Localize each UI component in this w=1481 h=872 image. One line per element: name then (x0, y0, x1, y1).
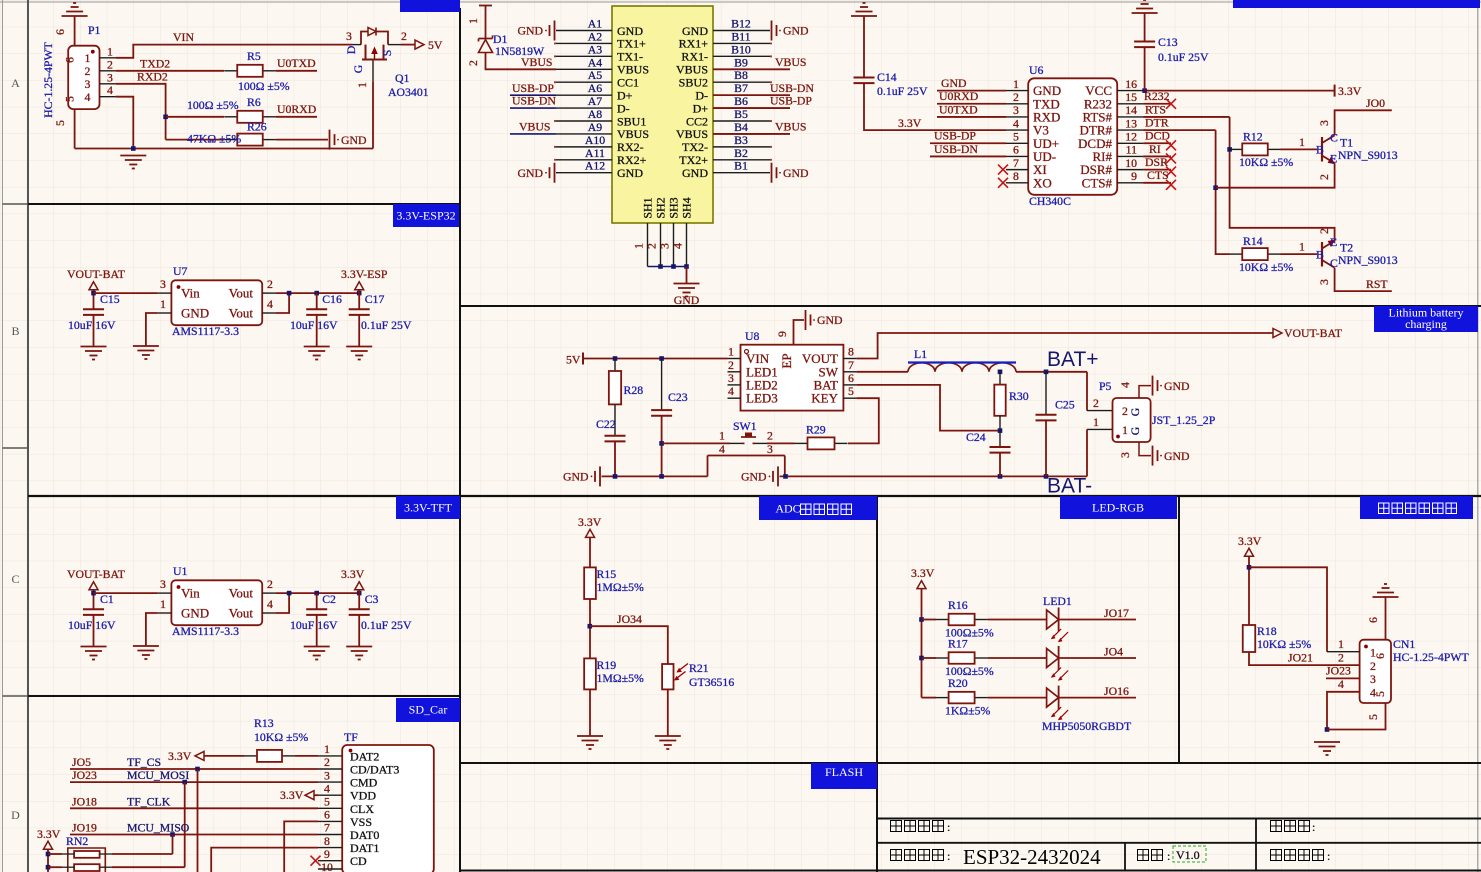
svg-text:JO0: JO0 (1366, 96, 1385, 110)
svg-text:1: 1 (85, 51, 91, 65)
svg-text:A8: A8 (588, 107, 603, 121)
svg-text:10KΩ ±5%: 10KΩ ±5% (1239, 155, 1293, 169)
svg-text:2: 2 (728, 358, 734, 372)
svg-text:1MΩ±5%: 1MΩ±5% (597, 671, 645, 685)
svg-text:XO: XO (1033, 175, 1052, 190)
svg-text:100Ω ±5%: 100Ω ±5% (187, 98, 239, 112)
svg-text:2: 2 (324, 755, 330, 769)
svg-text:7: 7 (324, 821, 330, 835)
svg-text:R21: R21 (689, 661, 709, 675)
svg-text:EP: EP (779, 353, 794, 368)
svg-text:C22: C22 (596, 417, 616, 431)
svg-text:0.1uF 25V: 0.1uF 25V (1158, 50, 1209, 64)
svg-text:1: 1 (1013, 77, 1019, 91)
svg-text:6: 6 (1366, 617, 1380, 623)
svg-text:JO4: JO4 (1104, 645, 1123, 659)
svg-text:6: 6 (848, 371, 854, 385)
svg-text:0.1uF 25V: 0.1uF 25V (361, 318, 412, 332)
svg-text:3: 3 (160, 277, 166, 291)
svg-text:3.3V-ESP32: 3.3V-ESP32 (396, 209, 455, 223)
svg-text:V1.0: V1.0 (1176, 848, 1200, 862)
svg-text:GND: GND (682, 166, 708, 180)
svg-text:USB-DN: USB-DN (770, 81, 814, 95)
svg-text:8: 8 (324, 834, 330, 848)
svg-text:R13: R13 (254, 716, 274, 730)
svg-text:CTS: CTS (1147, 168, 1169, 182)
svg-text:SW1: SW1 (733, 419, 757, 433)
svg-text:B: B (11, 324, 19, 338)
svg-text:VSS: VSS (350, 815, 372, 829)
svg-text:G: G (351, 64, 365, 73)
svg-text:3: 3 (1317, 279, 1331, 285)
svg-text:R12: R12 (1243, 130, 1263, 144)
svg-text:1N5819W: 1N5819W (495, 44, 545, 58)
svg-text:47KΩ ±5%: 47KΩ ±5% (187, 132, 241, 146)
svg-text:RX1-: RX1- (681, 50, 708, 64)
svg-text:B3: B3 (734, 133, 748, 147)
svg-text:SBU2: SBU2 (679, 76, 708, 90)
svg-text:GND: GND (341, 133, 367, 147)
svg-text:B11: B11 (731, 29, 750, 43)
svg-text:TX1-: TX1- (617, 50, 643, 64)
svg-text:RXD2: RXD2 (137, 70, 168, 84)
svg-text:16: 16 (1125, 77, 1137, 91)
svg-text:0.1uF 25V: 0.1uF 25V (361, 618, 412, 632)
svg-text:RN2: RN2 (66, 834, 88, 848)
svg-text:3.3V: 3.3V (898, 116, 922, 130)
svg-text:5V: 5V (566, 353, 581, 367)
svg-text:GND: GND (941, 76, 967, 90)
svg-text:L1: L1 (914, 347, 927, 361)
svg-text:2: 2 (645, 243, 659, 249)
svg-text:GND: GND (517, 24, 543, 38)
svg-text:3.3V: 3.3V (1238, 534, 1262, 548)
svg-text:GND: GND (563, 470, 589, 484)
svg-text:3: 3 (1013, 103, 1019, 117)
svg-text:U0TXD: U0TXD (277, 56, 316, 70)
svg-text:LED-RGB: LED-RGB (1092, 501, 1144, 515)
svg-text:R29: R29 (806, 423, 826, 437)
svg-text:4: 4 (1013, 116, 1019, 130)
svg-text:1: 1 (632, 243, 646, 249)
svg-text:1: 1 (1299, 240, 1305, 254)
svg-text:1: 1 (324, 742, 330, 756)
svg-text:1: 1 (1093, 415, 1099, 429)
svg-text:ESP32-2432024: ESP32-2432024 (963, 845, 1101, 869)
svg-text:2: 2 (1338, 651, 1344, 665)
svg-text:3: 3 (728, 371, 734, 385)
svg-text:VBUS: VBUS (775, 55, 806, 69)
svg-text:15: 15 (1125, 90, 1137, 104)
svg-text::: : (1167, 849, 1170, 863)
svg-text:Vout: Vout (229, 605, 254, 620)
svg-text:1: 1 (1338, 637, 1344, 651)
svg-text:100Ω ±5%: 100Ω ±5% (238, 79, 290, 93)
svg-text:SD_Car: SD_Car (409, 703, 448, 717)
svg-text:14: 14 (1125, 103, 1137, 117)
svg-text:6: 6 (63, 57, 77, 63)
svg-text:DAT0: DAT0 (350, 828, 379, 842)
svg-text:5V: 5V (428, 38, 443, 52)
svg-text:HC-1.25-4PWT: HC-1.25-4PWT (41, 41, 55, 117)
svg-text:3: 3 (85, 77, 91, 91)
svg-text:GND: GND (1164, 449, 1190, 463)
svg-text:6: 6 (53, 29, 67, 35)
svg-text:5: 5 (324, 795, 330, 809)
svg-text:TX1+: TX1+ (617, 37, 646, 51)
svg-text:P5: P5 (1099, 379, 1112, 393)
svg-text:1KΩ±5%: 1KΩ±5% (945, 704, 991, 718)
svg-text:D+: D+ (693, 101, 709, 115)
svg-text:VBUS: VBUS (676, 127, 708, 141)
svg-text:E: E (1330, 152, 1337, 166)
svg-text:2: 2 (107, 57, 113, 71)
svg-text:U6: U6 (1029, 63, 1044, 77)
svg-text:3.3V: 3.3V (37, 827, 61, 841)
svg-text:GND: GND (1164, 379, 1190, 393)
svg-text:U0RXD: U0RXD (939, 89, 979, 103)
svg-text:GND: GND (817, 313, 843, 327)
svg-text:CH340C: CH340C (1029, 194, 1071, 208)
svg-text:Vout: Vout (229, 305, 254, 320)
svg-text:C23: C23 (668, 390, 688, 404)
svg-text:10KΩ ±5%: 10KΩ ±5% (254, 730, 308, 744)
svg-text:3: 3 (324, 768, 330, 782)
svg-text:9: 9 (775, 331, 789, 337)
svg-text:2: 2 (1093, 396, 1099, 410)
svg-text:3: 3 (107, 70, 113, 84)
svg-text:VOUT-BAT: VOUT-BAT (1284, 326, 1343, 340)
svg-text:LED3: LED3 (746, 391, 778, 406)
svg-text:S: S (380, 50, 394, 57)
svg-text:R14: R14 (1243, 234, 1263, 248)
svg-text:DAT1: DAT1 (350, 841, 379, 855)
svg-text:7: 7 (1013, 156, 1019, 170)
svg-text:USB-DP: USB-DP (512, 81, 554, 95)
svg-text:13: 13 (1125, 116, 1137, 130)
svg-text:U8: U8 (745, 329, 760, 343)
svg-text:4: 4 (728, 384, 734, 398)
svg-text:3: 3 (767, 442, 773, 456)
svg-text:U0TXD: U0TXD (939, 102, 978, 116)
svg-text:P1: P1 (88, 23, 101, 37)
svg-text:B5: B5 (734, 107, 748, 121)
svg-text:JO21: JO21 (1288, 651, 1313, 665)
svg-text:VBUS: VBUS (676, 63, 708, 77)
svg-text:DSR: DSR (1145, 155, 1168, 169)
svg-text:A10: A10 (585, 133, 605, 147)
svg-text:B2: B2 (734, 146, 748, 160)
svg-text:B1: B1 (734, 159, 748, 173)
svg-text:2: 2 (267, 277, 273, 291)
svg-text:JO16: JO16 (1104, 684, 1129, 698)
svg-text:GND: GND (674, 293, 700, 307)
svg-text:Vout: Vout (229, 286, 254, 301)
svg-text:3.3V-TFT: 3.3V-TFT (404, 501, 453, 515)
svg-text:1: 1 (160, 597, 166, 611)
svg-text:AMS1117-3.3: AMS1117-3.3 (172, 324, 239, 338)
svg-text:4: 4 (719, 442, 725, 456)
svg-text:1: 1 (107, 44, 113, 58)
svg-text:LED1: LED1 (1043, 594, 1072, 608)
svg-text:C15: C15 (100, 292, 120, 306)
svg-text:B: B (1316, 143, 1324, 157)
svg-text:HC-1.25-4PWT: HC-1.25-4PWT (1393, 650, 1469, 664)
svg-text:R26: R26 (247, 120, 267, 134)
svg-text:2: 2 (267, 577, 273, 591)
svg-text:D-: D- (617, 101, 630, 115)
svg-text:3: 3 (1118, 452, 1132, 458)
svg-text:A2: A2 (588, 29, 603, 43)
svg-text:4: 4 (324, 781, 330, 795)
svg-text:A9: A9 (588, 120, 603, 134)
svg-text:C13: C13 (1158, 35, 1178, 49)
svg-text:C2: C2 (322, 592, 336, 606)
svg-text:charging: charging (1405, 317, 1447, 331)
svg-text:RX2+: RX2+ (617, 153, 647, 167)
svg-text:TF_CLK: TF_CLK (127, 794, 171, 808)
svg-text:VOUT-BAT: VOUT-BAT (67, 567, 126, 581)
svg-text:9: 9 (324, 847, 330, 861)
svg-text:GND: GND (617, 166, 643, 180)
svg-text:RX1+: RX1+ (679, 37, 709, 51)
svg-text:CC2: CC2 (686, 114, 708, 128)
svg-text:10: 10 (1125, 156, 1137, 170)
svg-text:10: 10 (321, 860, 333, 872)
svg-text:MCU_MOSI: MCU_MOSI (127, 768, 189, 782)
svg-text:B4: B4 (734, 120, 748, 134)
svg-text:3: 3 (1370, 672, 1376, 686)
svg-text:GND: GND (617, 24, 643, 38)
svg-text:3.3V: 3.3V (911, 566, 935, 580)
svg-text:Vout: Vout (229, 586, 254, 601)
svg-text:9: 9 (1131, 169, 1137, 183)
svg-text:3: 3 (658, 243, 672, 249)
svg-text:10KΩ ±5%: 10KΩ ±5% (1239, 260, 1293, 274)
svg-text:1: 1 (719, 429, 725, 443)
svg-text:VBUS: VBUS (775, 120, 806, 134)
svg-text:R28: R28 (624, 383, 644, 397)
svg-text:0.1uF 25V: 0.1uF 25V (877, 84, 928, 98)
svg-text:3: 3 (160, 577, 166, 591)
svg-text:AO3401: AO3401 (388, 85, 429, 99)
svg-text:GND: GND (741, 470, 767, 484)
svg-text:1: 1 (728, 345, 734, 359)
svg-text:A7: A7 (588, 94, 603, 108)
svg-text:JO5: JO5 (72, 755, 91, 769)
svg-text:4: 4 (267, 597, 273, 611)
svg-text:C25: C25 (1055, 398, 1075, 412)
svg-text:4: 4 (107, 83, 113, 97)
svg-text:VBUS: VBUS (617, 127, 649, 141)
svg-text:SH4: SH4 (680, 197, 694, 218)
svg-text:C: C (11, 572, 19, 586)
svg-text:1: 1 (160, 297, 166, 311)
svg-text:C1: C1 (100, 592, 114, 606)
svg-text:5: 5 (53, 120, 67, 126)
svg-text:A11: A11 (585, 146, 605, 160)
svg-text:DTR: DTR (1145, 116, 1169, 130)
svg-text:3.3V: 3.3V (280, 788, 304, 802)
svg-text::: : (947, 820, 950, 834)
svg-text:A1: A1 (588, 17, 603, 31)
svg-text:JO17: JO17 (1104, 606, 1129, 620)
svg-text:5: 5 (1366, 714, 1380, 720)
svg-text:KEY: KEY (811, 391, 838, 406)
svg-text:B: B (1316, 248, 1324, 262)
svg-text:U1: U1 (173, 564, 188, 578)
svg-text:1: 1 (466, 18, 480, 24)
svg-text:GT36516: GT36516 (689, 675, 734, 689)
svg-text:R16: R16 (948, 598, 968, 612)
svg-text:GND: GND (783, 166, 809, 180)
svg-text:6: 6 (324, 808, 330, 822)
svg-text:C: C (1330, 256, 1338, 270)
svg-text:CC1: CC1 (617, 76, 639, 90)
svg-text:AMS1117-3.3: AMS1117-3.3 (172, 624, 239, 638)
svg-text:C14: C14 (877, 70, 897, 84)
svg-text:USB-DN: USB-DN (934, 142, 978, 156)
svg-text:VDD: VDD (350, 789, 376, 803)
svg-text:SBU1: SBU1 (617, 114, 646, 128)
svg-text:TX2+: TX2+ (679, 153, 708, 167)
svg-text::: : (947, 849, 950, 863)
svg-text:10KΩ ±5%: 10KΩ ±5% (1257, 637, 1311, 651)
svg-text:2: 2 (85, 64, 91, 78)
svg-text:TF: TF (344, 730, 358, 744)
svg-text:B6: B6 (734, 94, 748, 108)
svg-text:BAT+: BAT+ (1047, 348, 1099, 371)
svg-text:10uF 16V: 10uF 16V (68, 618, 116, 632)
svg-text:R19: R19 (597, 658, 617, 672)
svg-text:RI: RI (1149, 142, 1161, 156)
svg-text:JO23: JO23 (1326, 664, 1351, 678)
svg-text:R30: R30 (1009, 389, 1029, 403)
svg-text:FLASH: FLASH (825, 765, 863, 779)
svg-text:5: 5 (63, 96, 77, 102)
svg-text:3.3V: 3.3V (168, 749, 192, 763)
svg-text:NPN_S9013: NPN_S9013 (1338, 253, 1398, 267)
svg-text:5: 5 (1013, 129, 1019, 143)
svg-text:6: 6 (1373, 653, 1387, 659)
svg-text:VBUS: VBUS (617, 63, 649, 77)
svg-text:A6: A6 (588, 81, 603, 95)
svg-text:4: 4 (85, 90, 91, 104)
svg-text:C: C (1330, 131, 1338, 145)
svg-text:CLX: CLX (350, 802, 374, 816)
svg-text:7: 7 (848, 358, 854, 372)
svg-text:C17: C17 (365, 292, 385, 306)
svg-text:Q1: Q1 (395, 71, 410, 85)
svg-text:TF_CS: TF_CS (127, 755, 161, 769)
svg-text:3: 3 (346, 29, 352, 43)
svg-text:3.3V: 3.3V (578, 515, 602, 529)
svg-text:10uF 16V: 10uF 16V (290, 318, 338, 332)
svg-text:4: 4 (671, 243, 685, 249)
svg-text:G: G (1128, 426, 1142, 435)
svg-text:1: 1 (1299, 135, 1305, 149)
svg-text:USB-DP: USB-DP (770, 94, 812, 108)
svg-text:12: 12 (1125, 129, 1137, 143)
svg-text:10uF 16V: 10uF 16V (290, 618, 338, 632)
svg-text::: : (1312, 820, 1315, 834)
svg-text:R18: R18 (1257, 624, 1277, 638)
svg-text:2: 2 (767, 429, 773, 443)
svg-text:VBUS: VBUS (519, 120, 550, 134)
svg-text:A: A (11, 76, 20, 90)
svg-text:GND: GND (682, 24, 708, 38)
svg-text:3.3V: 3.3V (341, 567, 365, 581)
svg-text:5: 5 (1373, 691, 1387, 697)
svg-text:MCU_MISO: MCU_MISO (127, 821, 190, 835)
svg-text:ADC: ADC (775, 502, 800, 516)
svg-text:B7: B7 (734, 81, 748, 95)
svg-text:D: D (11, 808, 20, 822)
svg-text:JO19: JO19 (72, 821, 97, 835)
svg-text:D: D (344, 45, 358, 54)
svg-text:R20: R20 (948, 676, 968, 690)
svg-text:3.3V-ESP: 3.3V-ESP (341, 267, 388, 281)
svg-text:CMD: CMD (350, 776, 378, 790)
svg-text:JST_1.25_2P: JST_1.25_2P (1152, 413, 1216, 427)
svg-text:10uF 16V: 10uF 16V (68, 318, 116, 332)
svg-text:R6: R6 (247, 95, 261, 109)
svg-text:4: 4 (267, 297, 273, 311)
svg-text:B8: B8 (734, 68, 748, 82)
svg-text:A5: A5 (588, 68, 603, 82)
svg-text:Vin: Vin (181, 586, 200, 601)
svg-text:TXD2: TXD2 (140, 57, 170, 71)
svg-text:RTS: RTS (1145, 102, 1166, 116)
svg-text:Vin: Vin (181, 286, 200, 301)
svg-text:2: 2 (1317, 228, 1331, 234)
svg-text:R232: R232 (1144, 89, 1170, 103)
svg-text:8: 8 (848, 345, 854, 359)
svg-text:3.3V: 3.3V (1338, 84, 1362, 98)
svg-text:VOUT-BAT: VOUT-BAT (67, 267, 126, 281)
svg-text:11: 11 (1126, 143, 1137, 157)
svg-text:TX2-: TX2- (682, 140, 708, 154)
svg-text:MHP5050RGBDT: MHP5050RGBDT (1042, 719, 1132, 733)
svg-text:USB-DN: USB-DN (512, 94, 556, 108)
svg-text:C24: C24 (966, 430, 986, 444)
svg-text:SH1: SH1 (641, 197, 655, 218)
svg-text:SH2: SH2 (654, 197, 668, 218)
svg-text:D-: D- (695, 88, 708, 102)
svg-text:CD: CD (350, 854, 367, 868)
svg-text:CD/DAT3: CD/DAT3 (350, 763, 399, 777)
svg-text:SH3: SH3 (667, 197, 681, 218)
svg-text:E: E (1330, 235, 1337, 249)
svg-text:R17: R17 (948, 637, 968, 651)
svg-text:1MΩ±5%: 1MΩ±5% (597, 580, 645, 594)
svg-text:8: 8 (1013, 169, 1019, 183)
svg-text:C3: C3 (365, 592, 379, 606)
svg-text::: : (1327, 849, 1330, 863)
svg-text:GND: GND (517, 166, 543, 180)
svg-text:U0RXD: U0RXD (277, 102, 317, 116)
svg-text:VIN: VIN (173, 30, 194, 44)
svg-text:B9: B9 (734, 55, 748, 69)
svg-text:A3: A3 (588, 42, 603, 56)
svg-text:CTS#: CTS# (1082, 175, 1113, 190)
svg-text:R15: R15 (597, 567, 617, 581)
svg-text:R5: R5 (247, 49, 261, 63)
svg-text:GND: GND (783, 24, 809, 38)
svg-text:B10: B10 (731, 42, 751, 56)
svg-text:JO23: JO23 (72, 768, 97, 782)
svg-text:2: 2 (1317, 174, 1331, 180)
